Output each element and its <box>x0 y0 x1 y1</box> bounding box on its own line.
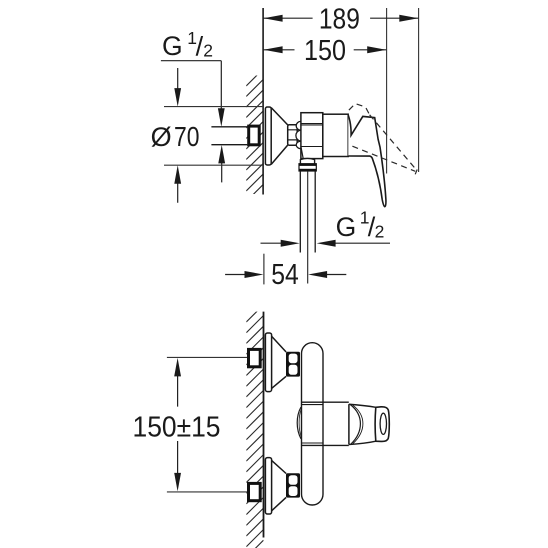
svg-text:189: 189 <box>319 4 360 36</box>
cartridge housing (front view) <box>302 402 349 445</box>
svg-text:54: 54 <box>271 259 299 291</box>
supply square fitting lower (front view) <box>249 483 261 500</box>
supply square fitting upper (front view) <box>249 349 261 366</box>
svg-text:150±15: 150±15 <box>133 411 221 443</box>
supply pipe lines (in wall, side view) <box>211 127 247 145</box>
grip end oval recess <box>380 413 386 434</box>
extension line 189 (dashed lever tip) <box>418 8 420 172</box>
body capsule (front view) <box>302 343 324 505</box>
dome seam arcs (front view) <box>350 405 360 444</box>
hex nut (side view) <box>288 121 301 148</box>
leader G1/2 top: underline and arrow down to supply pipe <box>161 61 225 127</box>
hose union nut (side view) <box>299 164 317 172</box>
wall line (side view) <box>262 8 264 195</box>
arrow up to supply pipe bottom line <box>218 145 225 183</box>
dimension 150+-15 extension lines / supply lines <box>167 357 248 492</box>
hex nut lower (front view) <box>286 473 300 497</box>
escutcheon flange upper (front view) <box>265 333 286 392</box>
supply square fitting (side view) <box>249 126 260 145</box>
valve body block (side view) <box>301 113 323 159</box>
dimension D70 arrows <box>174 68 181 203</box>
cartridge housing (side view) <box>323 114 348 156</box>
handle cone (front view) <box>349 404 376 444</box>
mounting boss arcs behind capsule <box>297 407 301 439</box>
svg-text:150: 150 <box>304 35 346 67</box>
svg-text:Ø: Ø <box>151 122 172 152</box>
svg-text:G: G <box>162 31 183 61</box>
dimension 189 <box>263 15 418 22</box>
wall line (front view) <box>263 312 265 538</box>
dimension 54 <box>225 254 346 285</box>
dimension D70 extension lines <box>164 107 263 166</box>
hex nut upper (front view) <box>286 352 300 377</box>
lever handle solid (side view) <box>348 115 386 206</box>
handle grip end (front view) <box>375 407 389 442</box>
shower outlet stub (side view) <box>300 158 314 163</box>
wall hatching (side view) <box>246 69 263 212</box>
svg-text:G: G <box>336 212 357 242</box>
escutcheon flange lower (front view) <box>265 458 286 514</box>
extension line 150 (solid lever tip) <box>386 8 388 174</box>
dimension G1/2 (hose thread) arrows <box>261 240 391 247</box>
wall hatching (front view) <box>246 305 263 548</box>
svg-text:70: 70 <box>174 121 200 152</box>
svg-text:2: 2 <box>375 221 385 241</box>
svg-text:2: 2 <box>203 40 213 60</box>
hose pipe centre line <box>307 171 309 284</box>
dimension 150 <box>263 46 386 53</box>
hose pipe (side view) <box>300 171 315 253</box>
escutcheon flange (side view) <box>265 107 287 165</box>
dimension 150+-15 <box>174 358 181 492</box>
dashed lever tip mark <box>415 170 417 175</box>
lever handle raised position dashed outline (side view) <box>349 104 416 172</box>
